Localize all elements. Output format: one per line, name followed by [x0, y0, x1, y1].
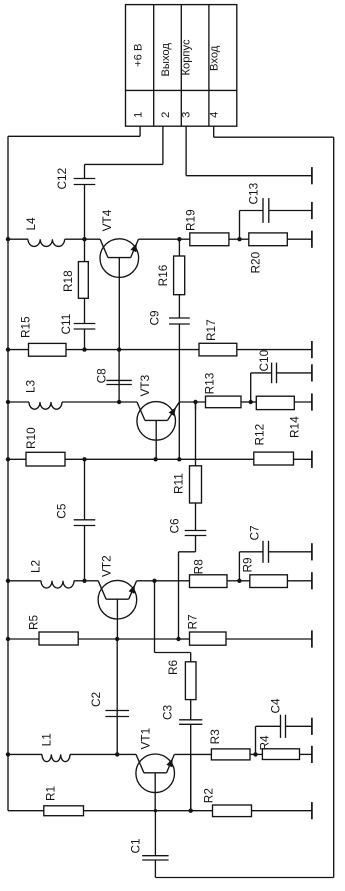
- svg-text:C3: C3: [161, 704, 175, 720]
- svg-text:VT3: VT3: [138, 374, 152, 396]
- svg-text:C11: C11: [59, 314, 73, 335]
- svg-text:R16: R16: [156, 264, 170, 286]
- svg-text:R6: R6: [166, 659, 180, 675]
- svg-text:R20: R20: [248, 251, 262, 273]
- svg-text:C4: C4: [269, 698, 283, 714]
- svg-text:C2: C2: [89, 692, 103, 707]
- svg-text:R4: R4: [258, 735, 272, 751]
- svg-text:C9: C9: [148, 310, 162, 325]
- svg-text:C10: C10: [257, 349, 271, 371]
- svg-text:R12: R12: [253, 424, 267, 446]
- svg-text:R9: R9: [241, 557, 255, 572]
- svg-text:C1: C1: [129, 838, 143, 853]
- svg-text:L1: L1: [40, 733, 54, 746]
- svg-text:Выход: Выход: [160, 43, 172, 77]
- svg-text:R8: R8: [191, 559, 205, 575]
- svg-text:+6 В: +6 В: [132, 44, 144, 67]
- svg-text:C12: C12: [55, 168, 69, 190]
- svg-text:R7: R7: [186, 614, 200, 629]
- svg-text:Корпус: Корпус: [180, 39, 192, 75]
- svg-text:4: 4: [208, 112, 220, 118]
- svg-text:R11: R11: [172, 473, 186, 494]
- svg-text:2: 2: [160, 112, 172, 118]
- svg-text:R14: R14: [288, 416, 302, 438]
- svg-text:3: 3: [180, 112, 192, 118]
- svg-text:R10: R10: [24, 427, 38, 449]
- svg-text:L3: L3: [24, 379, 38, 393]
- svg-text:R1: R1: [44, 786, 58, 801]
- svg-text:VT4: VT4: [100, 209, 114, 231]
- svg-text:R13: R13: [203, 372, 217, 394]
- svg-text:C6: C6: [167, 518, 181, 534]
- svg-text:L4: L4: [24, 217, 38, 231]
- svg-text:R2: R2: [202, 788, 216, 803]
- svg-text:R18: R18: [61, 270, 75, 292]
- svg-text:R19: R19: [184, 209, 198, 231]
- svg-text:R3: R3: [208, 729, 222, 745]
- svg-text:R17: R17: [204, 319, 218, 341]
- svg-text:C5: C5: [55, 503, 69, 519]
- svg-text:L2: L2: [29, 560, 43, 573]
- svg-text:R15: R15: [19, 316, 33, 338]
- svg-text:Вход: Вход: [208, 45, 220, 71]
- svg-text:C13: C13: [246, 182, 260, 204]
- svg-text:R5: R5: [27, 614, 41, 630]
- svg-text:1: 1: [132, 112, 144, 118]
- svg-text:C7: C7: [248, 525, 262, 540]
- svg-text:C8: C8: [95, 368, 109, 384]
- svg-text:VT2: VT2: [100, 555, 114, 577]
- svg-text:VT1: VT1: [139, 728, 153, 750]
